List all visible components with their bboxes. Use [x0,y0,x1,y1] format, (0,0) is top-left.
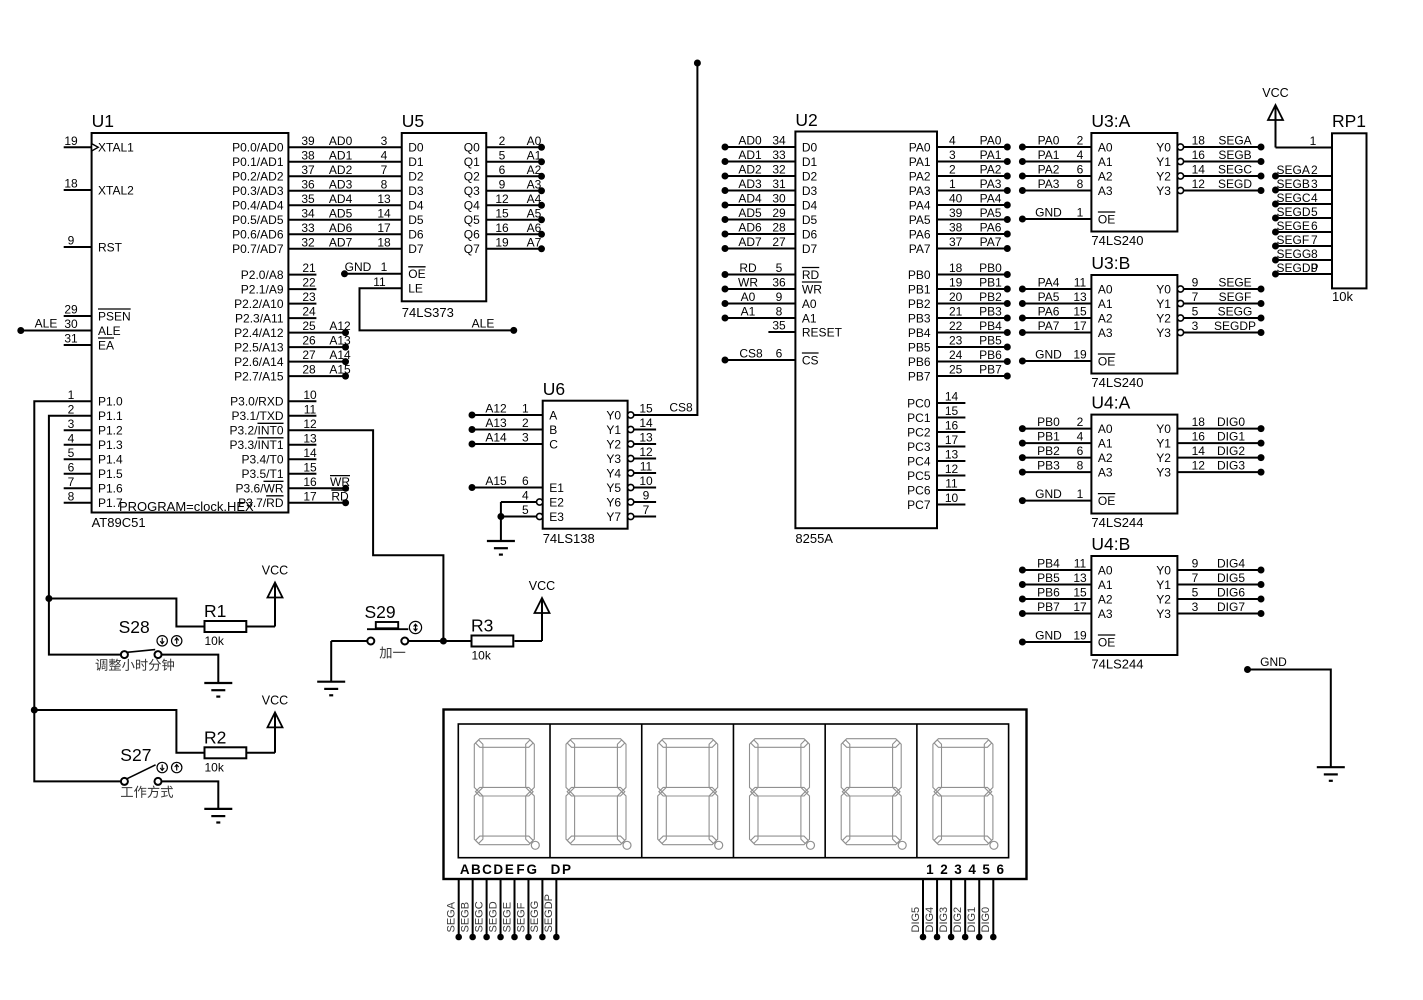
svg-text:GND: GND [345,260,372,274]
svg-text:Y2: Y2 [606,437,621,451]
svg-text:WR: WR [330,475,350,489]
svg-text:CS8: CS8 [669,401,693,415]
svg-text:A5: A5 [527,206,542,220]
svg-text:A3: A3 [1098,184,1113,198]
svg-text:SEGA: SEGA [1277,163,1310,177]
svg-text:C: C [549,437,558,451]
svg-text:Q6: Q6 [464,228,480,242]
svg-text:Y1: Y1 [1156,297,1171,311]
svg-text:PC7: PC7 [907,498,931,512]
svg-text:DIG2: DIG2 [952,907,964,933]
svg-text:30: 30 [772,192,786,206]
svg-text:15: 15 [1073,586,1087,600]
svg-text:F: F [516,862,524,877]
svg-text:6: 6 [776,347,783,361]
svg-text:PA5: PA5 [909,213,931,227]
svg-text:A0: A0 [1098,563,1113,577]
svg-text:PB1: PB1 [908,282,931,296]
svg-text:DIG3: DIG3 [938,907,950,933]
svg-text:D0: D0 [802,140,818,154]
svg-text:PB5: PB5 [979,334,1002,348]
svg-text:PB0: PB0 [1037,415,1060,429]
svg-text:A0: A0 [1098,140,1113,154]
svg-text:PB3: PB3 [979,305,1002,319]
svg-text:8255A: 8255A [795,531,833,546]
svg-text:13: 13 [945,448,959,462]
svg-text:13: 13 [303,431,317,445]
svg-text:2: 2 [522,416,529,430]
svg-text:P1.1: P1.1 [98,409,123,423]
svg-text:24: 24 [949,348,963,362]
svg-text:10: 10 [303,388,317,402]
svg-text:36: 36 [772,276,786,290]
svg-text:2: 2 [1077,415,1084,429]
svg-text:A1: A1 [1098,436,1113,450]
svg-text:OE: OE [1098,212,1115,226]
svg-text:S29: S29 [365,602,396,622]
svg-text:31: 31 [64,332,78,346]
svg-text:P2.7/A15: P2.7/A15 [234,369,284,383]
svg-text:U4:B: U4:B [1091,534,1130,554]
svg-text:3: 3 [1192,600,1199,614]
svg-text:1: 1 [949,177,956,191]
svg-text:9: 9 [643,489,650,503]
svg-text:SEGF: SEGF [1219,290,1252,304]
svg-text:A1: A1 [527,148,542,162]
svg-text:PB6: PB6 [979,348,1002,362]
svg-text:A1: A1 [802,311,817,325]
svg-text:Y3: Y3 [1156,607,1171,621]
svg-text:A2: A2 [527,163,542,177]
svg-text:SEGB: SEGB [1277,177,1310,191]
svg-text:PC2: PC2 [907,425,931,439]
svg-text:P2.3/A11: P2.3/A11 [235,311,284,325]
svg-text:20: 20 [949,290,963,304]
svg-text:A0: A0 [1098,282,1113,296]
svg-text:30: 30 [64,317,78,331]
svg-text:6: 6 [499,163,506,177]
svg-text:SEGA: SEGA [1218,134,1251,148]
svg-text:3: 3 [1192,319,1199,333]
svg-text:PB3: PB3 [1037,459,1060,473]
svg-text:Q7: Q7 [464,242,480,256]
svg-text:39: 39 [301,134,315,148]
svg-text:19: 19 [1073,348,1087,362]
svg-text:U2: U2 [795,110,817,130]
svg-text:PB7: PB7 [1037,600,1060,614]
svg-text:P3.7/RD: P3.7/RD [238,496,284,510]
svg-text:1: 1 [381,260,388,274]
svg-text:OE: OE [1098,354,1115,368]
svg-text:AD0: AD0 [738,134,762,148]
svg-text:PB3: PB3 [908,311,931,325]
svg-text:28: 28 [302,363,316,377]
svg-text:PB7: PB7 [979,363,1002,377]
svg-text:PB4: PB4 [1037,557,1060,571]
svg-text:8: 8 [68,489,75,503]
svg-text:P0.7/AD7: P0.7/AD7 [232,242,284,256]
svg-text:AD6: AD6 [738,221,762,235]
svg-text:17: 17 [303,489,317,503]
svg-text:WR: WR [802,282,822,296]
svg-text:RESET: RESET [802,325,843,339]
svg-text:D2: D2 [408,170,424,184]
svg-text:P3.3/INT1: P3.3/INT1 [229,438,283,452]
svg-text:3: 3 [522,431,529,445]
svg-text:PA3: PA3 [980,177,1002,191]
svg-text:D4: D4 [802,198,818,212]
svg-text:WR: WR [738,276,758,290]
svg-text:D7: D7 [802,242,818,256]
svg-text:A3: A3 [1098,326,1113,340]
svg-text:14: 14 [1192,163,1206,177]
svg-text:5: 5 [776,261,783,275]
svg-text:5: 5 [499,148,506,162]
svg-text:PA4: PA4 [1038,276,1060,290]
svg-text:7: 7 [381,163,388,177]
svg-text:15: 15 [303,460,317,474]
svg-text:P0.5/AD5: P0.5/AD5 [232,213,284,227]
svg-text:DIG1: DIG1 [966,907,978,933]
svg-text:14: 14 [945,390,959,404]
svg-text:PC0: PC0 [907,396,931,410]
svg-text:2: 2 [68,402,75,416]
svg-text:21: 21 [949,305,963,319]
svg-text:14: 14 [1192,444,1206,458]
svg-text:3: 3 [954,862,962,877]
svg-text:E1: E1 [549,481,564,495]
svg-text:U3:B: U3:B [1091,253,1130,273]
svg-text:A14: A14 [485,431,507,445]
svg-text:PA2: PA2 [909,169,931,183]
svg-text:3: 3 [949,148,956,162]
svg-text:16: 16 [1192,148,1206,162]
svg-text:74LS373: 74LS373 [402,305,454,320]
svg-text:ALE: ALE [472,316,495,330]
svg-text:OE: OE [1098,494,1115,508]
svg-text:SEGB: SEGB [1218,148,1251,162]
svg-text:PA6: PA6 [1038,305,1060,319]
svg-text:SEGE: SEGE [501,902,513,933]
svg-text:11: 11 [373,275,386,289]
svg-text:ALE: ALE [35,317,58,331]
svg-text:16: 16 [945,419,959,433]
svg-text:4: 4 [1077,430,1084,444]
svg-text:PA0: PA0 [909,140,931,154]
svg-text:PC4: PC4 [907,454,931,468]
svg-text:Q3: Q3 [464,184,480,198]
svg-text:SEGC: SEGC [1277,191,1311,205]
svg-text:A7: A7 [527,235,542,249]
svg-text:A13: A13 [485,416,507,430]
svg-text:EA: EA [98,338,114,352]
svg-text:2: 2 [940,862,948,877]
svg-text:SEGG: SEGG [1277,247,1312,261]
svg-text:1: 1 [1310,134,1317,148]
svg-text:17: 17 [945,433,959,447]
svg-text:DIG5: DIG5 [1217,571,1245,585]
svg-text:DIG7: DIG7 [1217,600,1245,614]
svg-text:19: 19 [64,134,78,148]
svg-text:Y3: Y3 [1156,326,1171,340]
svg-text:26: 26 [302,334,316,348]
svg-text:D4: D4 [408,199,424,213]
svg-text:35: 35 [301,192,315,206]
svg-text:P0.0/AD0: P0.0/AD0 [232,141,284,155]
svg-text:9: 9 [68,234,75,248]
svg-text:D3: D3 [802,184,818,198]
svg-text:74LS244: 74LS244 [1091,657,1143,672]
svg-text:AD0: AD0 [329,134,353,148]
svg-text:34: 34 [772,134,786,148]
svg-text:Y7: Y7 [606,510,621,524]
svg-text:11: 11 [304,402,317,416]
svg-text:7: 7 [643,503,650,517]
svg-text:SEGF: SEGF [515,902,527,932]
svg-text:PA3: PA3 [1038,177,1060,191]
svg-text:B: B [471,862,481,877]
svg-text:13: 13 [377,192,391,206]
svg-text:PSEN: PSEN [98,309,131,323]
svg-text:PA4: PA4 [909,198,931,212]
svg-text:9: 9 [776,290,783,304]
svg-text:11: 11 [1074,557,1087,571]
svg-text:8: 8 [1077,459,1084,473]
svg-text:Q2: Q2 [464,170,480,184]
svg-text:8: 8 [776,305,783,319]
svg-text:PB6: PB6 [1037,586,1060,600]
svg-text:PA2: PA2 [980,163,1002,177]
svg-text:A13: A13 [329,334,351,348]
svg-text:CS: CS [802,353,819,367]
svg-text:D6: D6 [802,227,818,241]
svg-text:DIG0: DIG0 [1217,415,1245,429]
svg-text:DIG3: DIG3 [1217,459,1245,473]
svg-text:A0: A0 [527,134,542,148]
svg-text:E2: E2 [549,495,564,509]
svg-text:VCC: VCC [529,579,555,593]
svg-text:5: 5 [1192,305,1199,319]
svg-text:4: 4 [1077,148,1084,162]
svg-text:PC3: PC3 [907,440,931,454]
svg-text:D1: D1 [802,155,818,169]
svg-text:10k: 10k [205,760,225,774]
svg-text:21: 21 [302,261,316,275]
svg-text:18: 18 [1192,134,1206,148]
svg-text:SEGDP: SEGDP [1214,319,1256,333]
svg-text:VCC: VCC [1262,86,1288,100]
svg-text:P3.5/T1: P3.5/T1 [241,467,283,481]
svg-text:P3.6/WR: P3.6/WR [235,482,283,496]
svg-text:5: 5 [68,446,75,460]
svg-text:PA1: PA1 [980,148,1002,162]
svg-text:25: 25 [949,363,963,377]
svg-text:Y3: Y3 [1156,184,1171,198]
svg-text:ALE: ALE [98,324,121,338]
svg-text:16: 16 [495,221,509,235]
svg-text:AD3: AD3 [329,177,353,191]
svg-text:18: 18 [949,261,963,275]
svg-text:15: 15 [639,402,653,416]
svg-text:PB5: PB5 [1037,571,1060,585]
svg-text:7: 7 [1192,571,1199,585]
svg-text:24: 24 [302,305,316,319]
svg-text:PC6: PC6 [907,483,931,497]
svg-text:12: 12 [1192,177,1206,191]
svg-text:SEGC: SEGC [1218,163,1252,177]
svg-text:U3:A: U3:A [1091,111,1130,131]
svg-text:Y5: Y5 [606,481,621,495]
svg-text:A1: A1 [741,305,756,319]
svg-text:1: 1 [1077,206,1084,220]
svg-text:P2.1/A9: P2.1/A9 [241,282,284,296]
svg-text:P2.0/A8: P2.0/A8 [241,268,284,282]
svg-text:GND: GND [1035,348,1062,362]
svg-text:D3: D3 [408,184,424,198]
svg-text:P2.6/A14: P2.6/A14 [234,355,284,369]
svg-text:12: 12 [945,462,959,476]
svg-text:E: E [505,862,514,877]
svg-text:27: 27 [772,235,786,249]
svg-text:SEGE: SEGE [1218,276,1251,290]
svg-text:Q1: Q1 [464,155,480,169]
svg-text:A6: A6 [527,221,542,235]
svg-text:PB4: PB4 [979,319,1002,333]
svg-text:14: 14 [303,446,317,460]
svg-text:1: 1 [522,402,529,416]
svg-text:A14: A14 [329,348,351,362]
svg-text:5: 5 [1192,586,1199,600]
svg-text:PB2: PB2 [979,290,1002,304]
svg-text:A1: A1 [1098,155,1113,169]
svg-text:9: 9 [1192,276,1199,290]
svg-text:7: 7 [1192,290,1199,304]
svg-text:GND: GND [1035,629,1062,643]
svg-text:A2: A2 [1098,311,1113,325]
svg-text:6: 6 [1077,163,1084,177]
svg-text:6: 6 [1311,219,1318,233]
svg-text:D5: D5 [408,213,424,227]
svg-text:18: 18 [377,235,391,249]
svg-text:SEGD: SEGD [1277,205,1311,219]
svg-text:D0: D0 [408,141,424,155]
svg-text:LE: LE [408,282,423,296]
svg-text:DIG4: DIG4 [1217,557,1245,571]
svg-text:U6: U6 [543,379,565,399]
svg-text:9: 9 [1311,261,1318,275]
svg-text:13: 13 [639,431,653,445]
svg-text:9: 9 [1192,557,1199,571]
svg-text:A3: A3 [1098,465,1113,479]
svg-text:2: 2 [499,134,506,148]
svg-text:P2.4/A12: P2.4/A12 [234,326,284,340]
svg-text:18: 18 [64,177,78,191]
svg-text:PA7: PA7 [909,242,931,256]
svg-text:SEGF: SEGF [1277,233,1310,247]
svg-text:DIG0: DIG0 [980,907,992,933]
svg-text:A0: A0 [741,290,756,304]
svg-text:CS8: CS8 [739,347,763,361]
svg-text:Y2: Y2 [1156,451,1171,465]
svg-text:16: 16 [303,475,317,489]
svg-text:P1.7: P1.7 [98,496,123,510]
svg-text:PA6: PA6 [909,227,931,241]
svg-text:74LS240: 74LS240 [1091,375,1143,390]
svg-text:Y0: Y0 [1156,422,1171,436]
svg-text:S28: S28 [119,617,150,637]
svg-text:A4: A4 [527,192,542,206]
svg-text:Y0: Y0 [1156,282,1171,296]
svg-text:6: 6 [1077,444,1084,458]
svg-text:U5: U5 [402,111,424,131]
svg-text:5: 5 [1311,205,1318,219]
svg-text:P0.2/AD2: P0.2/AD2 [232,170,284,184]
svg-text:AD1: AD1 [738,148,762,162]
svg-text:PA1: PA1 [1038,148,1060,162]
svg-text:4: 4 [968,862,976,877]
svg-text:40: 40 [949,192,963,206]
svg-text:Y3: Y3 [1156,465,1171,479]
svg-text:PA0: PA0 [1038,134,1060,148]
svg-text:SEGD: SEGD [487,901,499,932]
svg-text:P3.1/TXD: P3.1/TXD [231,409,283,423]
svg-text:14: 14 [377,206,391,220]
svg-text:AD1: AD1 [329,148,353,162]
svg-text:33: 33 [772,148,786,162]
svg-text:SEGG: SEGG [1218,305,1253,319]
svg-text:DIG5: DIG5 [910,907,922,933]
svg-text:12: 12 [1192,459,1206,473]
svg-text:8: 8 [1077,177,1084,191]
svg-text:17: 17 [377,221,391,235]
svg-text:Q4: Q4 [464,199,480,213]
svg-text:R3: R3 [471,616,493,636]
svg-text:PA5: PA5 [1038,290,1060,304]
svg-text:10k: 10k [205,634,225,648]
svg-text:Y1: Y1 [1156,436,1171,450]
svg-text:PB2: PB2 [1037,444,1060,458]
svg-text:33: 33 [301,221,315,235]
svg-text:GND: GND [1035,487,1062,501]
svg-text:D1: D1 [408,155,424,169]
svg-text:GND: GND [1260,655,1287,669]
svg-text:13: 13 [1073,290,1087,304]
svg-text:P2.5/A13: P2.5/A13 [234,340,284,354]
svg-text:PB6: PB6 [908,355,931,369]
svg-text:AD2: AD2 [738,163,762,177]
svg-text:A2: A2 [1098,451,1113,465]
svg-text:AD5: AD5 [329,206,353,220]
svg-text:P1.6: P1.6 [98,482,123,496]
svg-text:1: 1 [68,388,75,402]
svg-text:23: 23 [949,334,963,348]
svg-text:PB0: PB0 [908,268,931,282]
svg-text:P1.0: P1.0 [98,395,123,409]
svg-text:A2: A2 [1098,592,1113,606]
svg-text:31: 31 [772,177,786,191]
svg-text:PA7: PA7 [980,235,1002,249]
svg-text:74LS138: 74LS138 [543,531,595,546]
svg-text:19: 19 [1073,629,1087,643]
svg-text:3: 3 [381,134,388,148]
svg-text:PC1: PC1 [907,411,931,425]
svg-text:A2: A2 [1098,169,1113,183]
svg-text:Y2: Y2 [1156,592,1171,606]
svg-text:A0: A0 [1098,422,1113,436]
svg-text:XTAL1: XTAL1 [98,141,134,155]
svg-text:P1.3: P1.3 [98,438,123,452]
svg-text:P0.6/AD6: P0.6/AD6 [232,228,284,242]
